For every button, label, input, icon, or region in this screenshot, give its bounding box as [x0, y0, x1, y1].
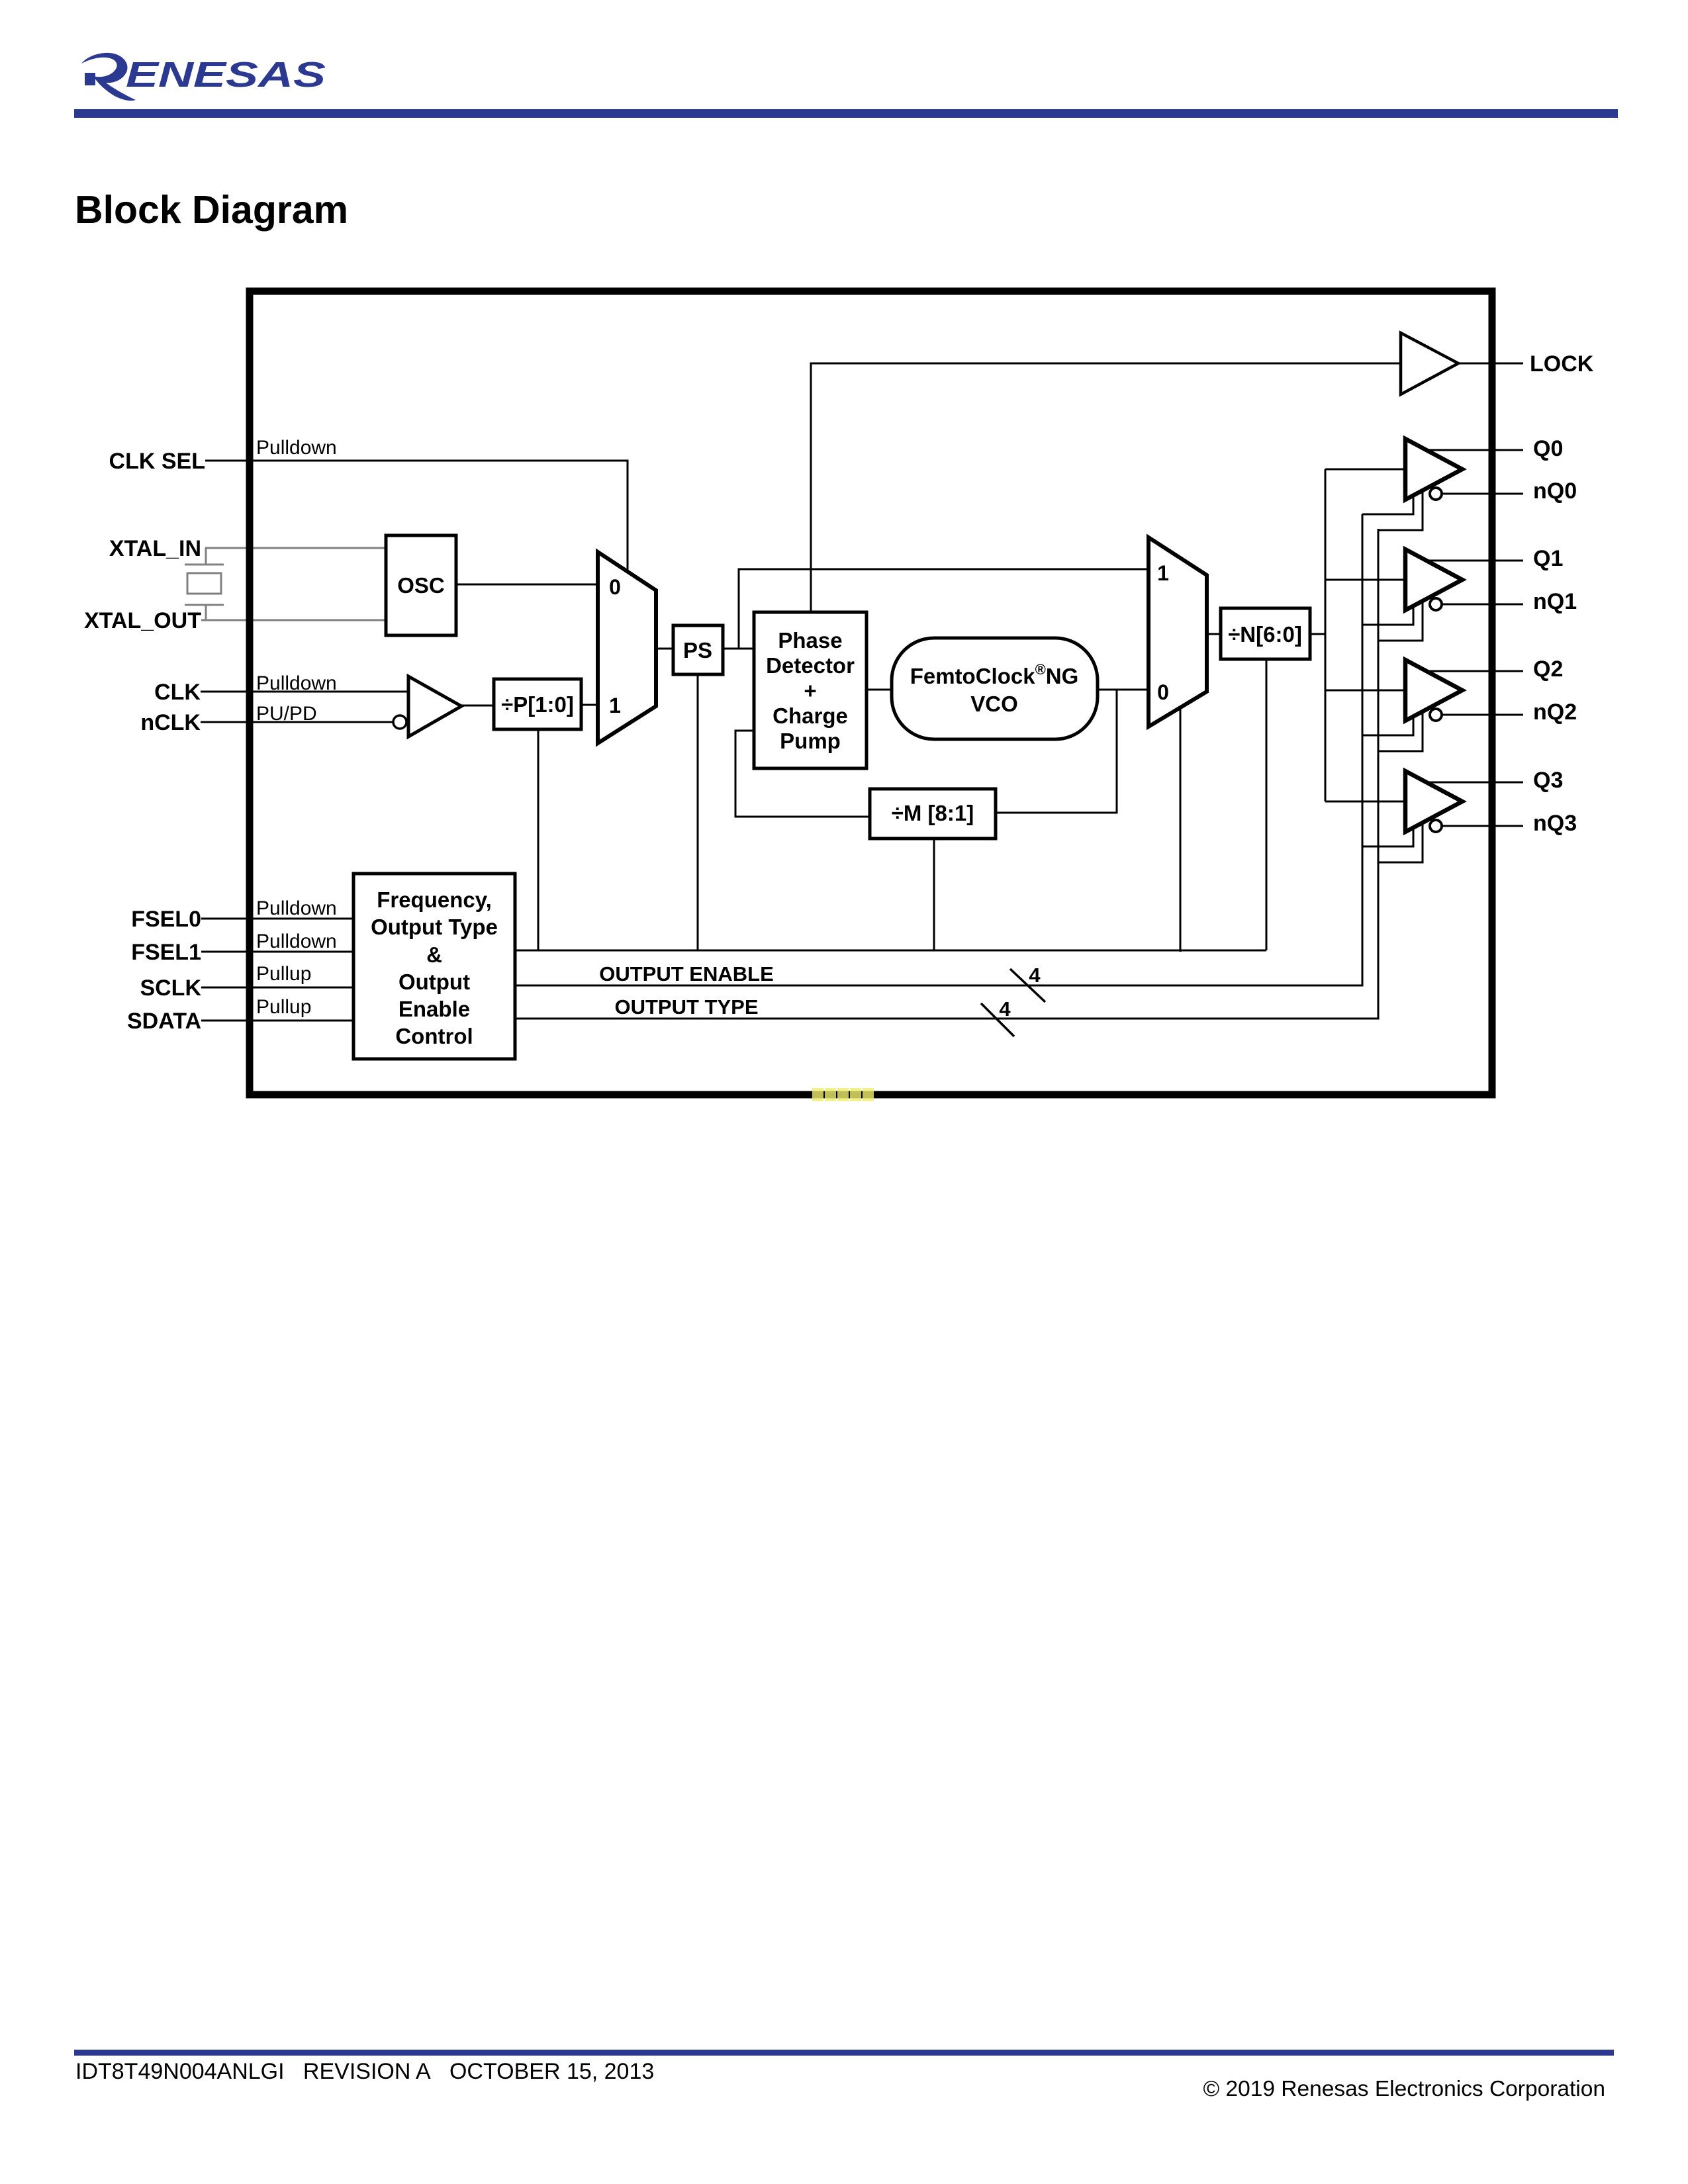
svg-text:Phase: Phase [778, 628, 842, 653]
svg-text:CLK: CLK [154, 680, 201, 705]
svg-text:PS: PS [683, 638, 712, 662]
svg-text:4: 4 [999, 997, 1011, 1021]
svg-text:OSC: OSC [397, 573, 445, 598]
svg-text:LOCK: LOCK [1530, 351, 1594, 377]
svg-text:VCO: VCO [970, 692, 1018, 716]
svg-text:÷M [8:1]: ÷M [8:1] [892, 801, 974, 825]
svg-text:Charge: Charge [773, 704, 848, 728]
svg-text:FSEL1: FSEL1 [131, 940, 201, 965]
svg-text:+: + [804, 678, 816, 703]
svg-text:PU/PD: PU/PD [256, 703, 317, 725]
svg-text:SDATA: SDATA [127, 1009, 201, 1034]
svg-text:Frequency,: Frequency, [377, 887, 492, 912]
svg-text:OUTPUT ENABLE: OUTPUT ENABLE [599, 962, 774, 985]
svg-text:© 2019 Renesas Electronics Cor: © 2019 Renesas Electronics Corporation [1203, 2077, 1605, 2101]
svg-text:Pump: Pump [780, 729, 841, 753]
svg-text:nQ0: nQ0 [1533, 478, 1577, 504]
svg-text:FSEL0: FSEL0 [131, 907, 201, 932]
svg-text:SCLK: SCLK [140, 976, 201, 1001]
svg-text:&: & [426, 942, 442, 967]
svg-text:Block Diagram: Block Diagram [75, 188, 348, 232]
svg-text:Output Type: Output Type [371, 915, 498, 939]
svg-text:nQ2: nQ2 [1533, 700, 1577, 725]
svg-text:nCLK: nCLK [140, 710, 201, 735]
svg-text:0: 0 [1157, 680, 1169, 704]
svg-text:Control: Control [395, 1024, 473, 1048]
svg-text:Pulldown: Pulldown [256, 437, 337, 459]
svg-text:FemtoClock®NG: FemtoClock®NG [910, 661, 1079, 688]
svg-text:IDT8T49N004ANLGI REVISION A: IDT8T49N004ANLGI REVISION A OCTOBER 15, … [75, 2059, 654, 2084]
svg-text:Pullup: Pullup [256, 996, 311, 1018]
svg-text:nQ1: nQ1 [1533, 589, 1577, 614]
svg-text:XTAL_IN: XTAL_IN [109, 536, 201, 561]
svg-text:Q3: Q3 [1533, 768, 1563, 793]
svg-text:Output: Output [399, 970, 470, 994]
svg-text:Pulldown: Pulldown [256, 672, 337, 694]
svg-text:OUTPUT TYPE: OUTPUT TYPE [614, 995, 758, 1019]
svg-text:0: 0 [609, 575, 621, 599]
svg-text:1: 1 [1157, 561, 1169, 585]
svg-text:Q2: Q2 [1533, 657, 1563, 682]
svg-text:÷P[1:0]: ÷P[1:0] [501, 692, 574, 717]
svg-text:4: 4 [1029, 964, 1041, 987]
svg-text:÷N[6:0]: ÷N[6:0] [1228, 622, 1302, 647]
svg-text:Pulldown: Pulldown [256, 897, 337, 919]
svg-text:1: 1 [609, 694, 621, 717]
svg-text:Q1: Q1 [1533, 546, 1563, 571]
svg-text:Enable: Enable [399, 997, 470, 1021]
svg-text:ENESAS: ENESAS [126, 55, 326, 95]
svg-text:Q0: Q0 [1533, 436, 1563, 461]
svg-text:CLK SEL: CLK SEL [109, 449, 205, 474]
svg-text:nQ3: nQ3 [1533, 811, 1577, 836]
svg-text:XTAL_OUT: XTAL_OUT [84, 608, 201, 633]
svg-text:Detector: Detector [766, 653, 855, 678]
svg-text:Pullup: Pullup [256, 963, 311, 985]
svg-text:Pulldown: Pulldown [256, 931, 337, 952]
